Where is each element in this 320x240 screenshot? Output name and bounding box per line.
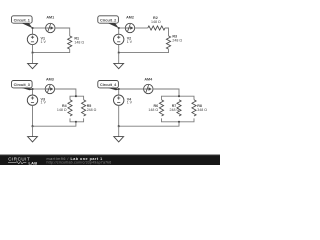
resistor R2 148 Ohm bbox=[148, 16, 165, 30]
junction top rail circuit3 bbox=[75, 95, 77, 97]
svg-text:R1: R1 bbox=[74, 36, 79, 40]
svg-text:R4: R4 bbox=[62, 104, 67, 108]
svg-text:AM3: AM3 bbox=[46, 78, 54, 82]
svg-text:Circuit_3: Circuit_3 bbox=[14, 83, 30, 87]
wire R1 to bottom rail bbox=[33, 49, 70, 53]
voltage source V1 1V bbox=[27, 28, 46, 53]
footer title text bbox=[47, 157, 103, 161]
svg-text:AM1: AM1 bbox=[46, 16, 54, 20]
resistor R8 348 Ohm bbox=[192, 100, 207, 116]
resistor R7 248 Ohm bbox=[169, 100, 181, 116]
wire R3 to bottom rail circuit2 bbox=[119, 49, 169, 53]
node label Circuit_1 bbox=[12, 16, 33, 28]
bottom rail circuit3 bbox=[70, 118, 84, 121]
wire node4 to AM4 bbox=[119, 88, 144, 90]
svg-text:248 Ω: 248 Ω bbox=[172, 38, 182, 42]
footer url text bbox=[47, 161, 112, 165]
voltage source V2 1V bbox=[114, 28, 133, 53]
svg-text:1 V: 1 V bbox=[127, 101, 133, 105]
svg-text:R5: R5 bbox=[87, 104, 92, 108]
resistor R5 248 Ohm bbox=[82, 100, 97, 116]
junction node bottom circuit1 bbox=[32, 52, 34, 54]
bottom rail circuit4 bbox=[162, 118, 195, 121]
svg-text:R6: R6 bbox=[153, 104, 158, 108]
junction node top circuit3 bbox=[32, 88, 34, 90]
top rail circuit4 bbox=[162, 96, 195, 100]
wire node3 to AM3 bbox=[33, 88, 46, 90]
CircuitLab logo bbox=[8, 156, 37, 165]
wire AM3 to parallel network bbox=[55, 89, 76, 96]
voltage source V3 1V bbox=[27, 89, 46, 126]
footer bar bbox=[0, 155, 220, 166]
svg-text:CIRCUIT: CIRCUIT bbox=[8, 156, 30, 161]
node label Circuit_3 bbox=[12, 81, 34, 91]
svg-text:248 Ω: 248 Ω bbox=[169, 108, 179, 112]
svg-text:http://circuitlab.com/c/33p49a: http://circuitlab.com/c/33p49ap7a7k6 bbox=[47, 161, 112, 165]
wire AM1 to R1 bbox=[55, 28, 70, 36]
resistor R3 248 Ohm bbox=[166, 34, 182, 49]
wire network to bottom rail circuit4 bbox=[119, 122, 179, 126]
svg-text:AM4: AM4 bbox=[144, 78, 153, 82]
ammeter AM1 bbox=[46, 16, 55, 33]
junction node top circuit4 bbox=[118, 88, 120, 90]
svg-text:1 V: 1 V bbox=[41, 101, 47, 105]
junction bottom rail circuit3 bbox=[75, 121, 77, 123]
wire network to bottom rail circuit3 bbox=[33, 122, 76, 126]
svg-text:Circuit_4: Circuit_4 bbox=[100, 83, 117, 87]
svg-text:LAB: LAB bbox=[29, 160, 38, 165]
svg-text:248 Ω: 248 Ω bbox=[87, 108, 97, 112]
ammeter AM2 bbox=[125, 16, 134, 33]
junction node bottom circuit3 bbox=[32, 125, 34, 127]
svg-text:148 Ω: 148 Ω bbox=[74, 41, 84, 45]
junction node top circuit2 bbox=[118, 27, 120, 29]
wire node2 to AM2 bbox=[119, 27, 126, 29]
svg-text:1 V: 1 V bbox=[127, 40, 133, 44]
wire node1 to AM1 bbox=[33, 27, 46, 29]
junction node bottom circuit2 bbox=[118, 52, 120, 54]
ground circuit2 bbox=[114, 53, 124, 69]
svg-text:Circuit_1: Circuit_1 bbox=[14, 18, 30, 22]
svg-text:148 Ω: 148 Ω bbox=[151, 20, 161, 24]
ground circuit4 bbox=[114, 126, 124, 142]
svg-text:1 V: 1 V bbox=[41, 40, 47, 44]
junction bottom rail circuit4 bbox=[178, 121, 180, 123]
svg-text:148 Ω: 148 Ω bbox=[148, 108, 158, 112]
wire AM4 to parallel network bbox=[153, 89, 179, 96]
wire AM2 to R2 bbox=[135, 27, 148, 29]
ground circuit3 bbox=[28, 126, 38, 142]
svg-text:Circuit_2: Circuit_2 bbox=[100, 18, 116, 22]
svg-text:148 Ω: 148 Ω bbox=[57, 108, 67, 112]
resistor R6 148 Ohm bbox=[148, 100, 163, 116]
resistor R4 148 Ohm bbox=[57, 100, 72, 116]
junction node bottom circuit4 bbox=[118, 125, 120, 127]
ammeter AM3 bbox=[45, 78, 54, 94]
svg-text:R7: R7 bbox=[172, 104, 177, 108]
svg-text:R8: R8 bbox=[197, 104, 202, 108]
ground circuit1 bbox=[28, 53, 38, 69]
node label Circuit_2 bbox=[98, 16, 119, 28]
svg-text:348 Ω: 348 Ω bbox=[197, 108, 207, 112]
resistor R1 148 Ohm bbox=[68, 36, 85, 49]
top rail circuit3 bbox=[70, 96, 84, 100]
junction top rail circuit4 bbox=[178, 95, 180, 97]
svg-text:AM2: AM2 bbox=[126, 16, 134, 20]
node label Circuit_4 bbox=[98, 81, 120, 91]
wire R2 to R3 bbox=[165, 28, 169, 36]
voltage source V4 1V bbox=[114, 89, 133, 126]
ammeter AM4 bbox=[144, 78, 154, 94]
junction node top circuit1 bbox=[32, 27, 34, 29]
